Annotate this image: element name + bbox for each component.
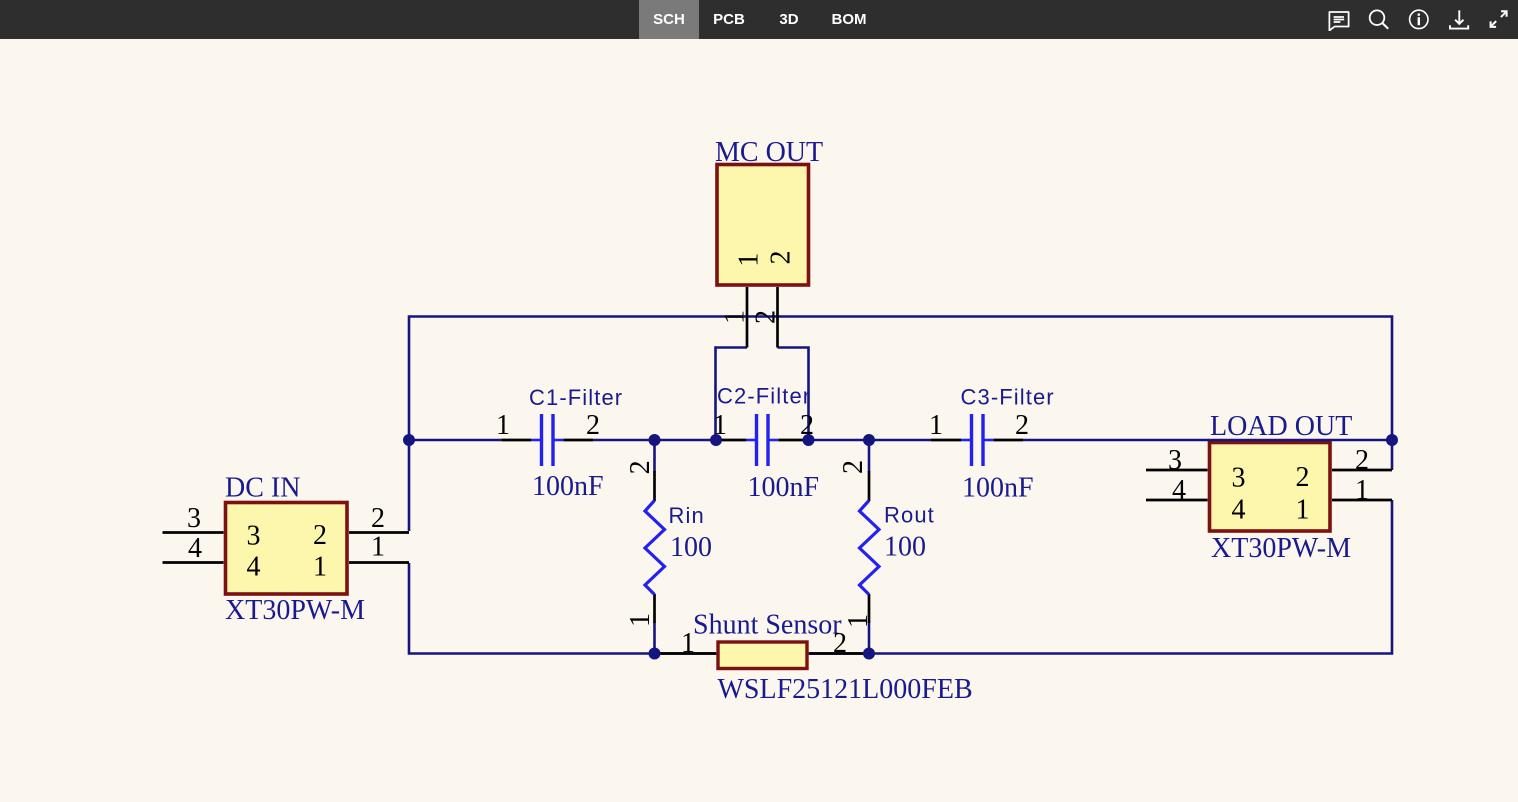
resistor Rin value [670, 532, 712, 563]
expand icon [1487, 9, 1509, 31]
svg-text:4: 4 [188, 533, 202, 564]
capacitor C3 value [962, 473, 1034, 504]
wire Rout bottom stub [868, 622, 871, 654]
resistor Shunt Sensor value [718, 674, 973, 705]
LOAD OUT pin numbers outside [1168, 445, 1369, 506]
junction node Rin bottom [649, 648, 661, 660]
svg-text:2: 2 [833, 628, 847, 659]
connector LOAD OUT label [1210, 411, 1352, 442]
svg-text:100nF: 100nF [962, 473, 1034, 504]
LOAD OUT pin numbers inside [1232, 462, 1310, 526]
svg-text:XT30PW-M: XT30PW-M [1211, 533, 1351, 564]
connector DC IN pin 2 stub [349, 531, 409, 534]
svg-text:C2-Filter: C2-Filter [717, 384, 811, 409]
svg-text:DC IN: DC IN [225, 473, 300, 504]
svg-text:2: 2 [1355, 445, 1369, 476]
resistor Shunt Sensor body [718, 642, 807, 669]
svg-text:LOAD OUT: LOAD OUT [1210, 411, 1352, 442]
capacitor C1 value [532, 471, 604, 502]
MC OUT pin 2 number outside [751, 310, 782, 324]
capacitor C1 pin numbers [496, 410, 600, 441]
capacitor C3 name [961, 385, 1055, 410]
svg-text:1: 1 [733, 253, 764, 267]
svg-text:WSLF25121L000FEB: WSLF25121L000FEB [718, 674, 973, 705]
resistor Rout value [884, 532, 926, 563]
capacitor C1 name [529, 385, 623, 410]
svg-text:3: 3 [187, 503, 201, 534]
connector DC IN pin 1 stub [349, 561, 409, 564]
svg-text:3: 3 [1232, 463, 1246, 494]
svg-text:4: 4 [247, 552, 261, 583]
junction node C2 pin2 [803, 434, 815, 446]
svg-text:2: 2 [313, 520, 327, 551]
connector DC IN body [226, 503, 348, 595]
connector LOAD OUT pin 2 stub [1332, 469, 1392, 472]
capacitor C3-Filter [931, 414, 1023, 466]
resistor Rout name [884, 503, 935, 528]
svg-text:2: 2 [751, 310, 782, 324]
resistor Rin name [669, 503, 705, 528]
capacitor C2 pin numbers [713, 410, 814, 441]
junction node Rout bottom [863, 648, 875, 660]
wire MC OUT pin2 drop [778, 348, 809, 441]
top toolbar [0, 0, 1518, 39]
svg-text:100nF: 100nF [532, 471, 604, 502]
connector LOAD OUT pin 4 stub [1146, 499, 1208, 502]
connector MC OUT label [715, 137, 823, 168]
svg-text:2: 2 [1296, 462, 1310, 493]
svg-text:XT30PW-M: XT30PW-M [225, 595, 365, 626]
wire main bus C1-Rin segment [593, 439, 716, 442]
MC OUT pin 1 number outside [720, 310, 751, 324]
svg-text:1: 1 [1296, 495, 1310, 526]
svg-text:100nF: 100nF [748, 472, 820, 503]
wire main bus right segment [1023, 439, 1392, 442]
wire top bus [409, 317, 1392, 532]
wire main bus Rout segment [809, 439, 932, 442]
svg-text:1: 1 [681, 628, 695, 659]
DC IN pin numbers outside [187, 503, 385, 564]
connector DC IN label [225, 473, 300, 504]
connector DC IN pin 3 stub [163, 531, 224, 534]
search icon [1368, 9, 1390, 31]
wire main bus left segment [409, 439, 501, 442]
MC OUT pin 1 number inside [733, 253, 764, 267]
junction node Rin top [649, 434, 661, 446]
svg-text:2: 2 [766, 251, 797, 265]
connector MC OUT pin 1 [746, 287, 749, 348]
svg-text:1: 1 [371, 532, 385, 563]
Shunt Sensor pin numbers [681, 628, 847, 659]
resistor Shunt Sensor pin 2 stub [809, 652, 869, 655]
capacitor C1-Filter [501, 414, 593, 466]
capacitor C2-Filter [716, 414, 809, 466]
svg-text:MC OUT: MC OUT [715, 137, 823, 168]
resistor Rin [645, 471, 665, 623]
capacitor C2 value [748, 472, 820, 503]
info icon [1408, 9, 1430, 31]
wire Rin top stub [653, 440, 656, 472]
svg-text:Rin: Rin [669, 503, 705, 528]
wire bottom bus [409, 500, 1392, 654]
svg-text:1: 1 [1355, 475, 1369, 506]
svg-text:100: 100 [670, 532, 712, 563]
resistor Rout [860, 471, 880, 623]
wire Rin bottom stub [653, 622, 656, 654]
svg-text:3: 3 [247, 521, 261, 552]
svg-text:1: 1 [496, 410, 510, 441]
svg-text:Shunt Sensor: Shunt Sensor [693, 610, 842, 641]
resistor Rout pin numbers [838, 460, 874, 628]
connector DC IN pin 4 stub [163, 561, 224, 564]
download icon [1448, 9, 1470, 31]
svg-text:3: 3 [1168, 445, 1182, 476]
svg-text:1: 1 [313, 552, 327, 583]
svg-text:4: 4 [1232, 495, 1246, 526]
svg-text:2: 2 [838, 460, 869, 474]
connector MC OUT body [717, 165, 809, 286]
svg-text:2: 2 [371, 503, 385, 534]
connector LOAD OUT pin 3 stub [1146, 469, 1208, 472]
MC OUT pin 2 number inside [766, 251, 797, 265]
connector LOAD OUT body [1210, 443, 1331, 532]
junction node main bus right [1386, 434, 1398, 446]
junction node Rout top [863, 434, 875, 446]
svg-text:2: 2 [586, 410, 600, 441]
resistor Shunt Sensor pin 1 stub [655, 652, 717, 655]
svg-text:2: 2 [625, 460, 656, 474]
connector LOAD OUT pin 1 stub [1332, 499, 1392, 502]
connector MC OUT pin 2 [776, 287, 779, 348]
comment icon [1328, 9, 1350, 31]
svg-text:C3-Filter: C3-Filter [961, 385, 1055, 410]
DC IN pin numbers inside [247, 520, 328, 583]
svg-text:1: 1 [625, 613, 656, 627]
svg-text:2: 2 [1015, 410, 1029, 441]
wire MC OUT pin1 drop [716, 348, 748, 441]
resistor Rin pin numbers [625, 460, 656, 627]
svg-text:1: 1 [843, 614, 874, 628]
resistor Shunt Sensor name [693, 610, 842, 641]
wire Rout top stub [868, 440, 871, 472]
svg-text:1: 1 [720, 310, 751, 324]
svg-text:100: 100 [884, 532, 926, 563]
capacitor C3 pin numbers [929, 410, 1029, 441]
svg-text:4: 4 [1172, 475, 1186, 506]
connector LOAD OUT value XT30PW-M [1211, 533, 1351, 564]
junction node main bus left [403, 434, 415, 446]
svg-text:C1-Filter: C1-Filter [529, 385, 623, 410]
junction node C2 pin1 [710, 434, 722, 446]
svg-text:1: 1 [929, 410, 943, 441]
connector DC IN value XT30PW-M [225, 595, 365, 626]
svg-text:Rout: Rout [884, 503, 935, 528]
capacitor C2 name [717, 384, 811, 409]
